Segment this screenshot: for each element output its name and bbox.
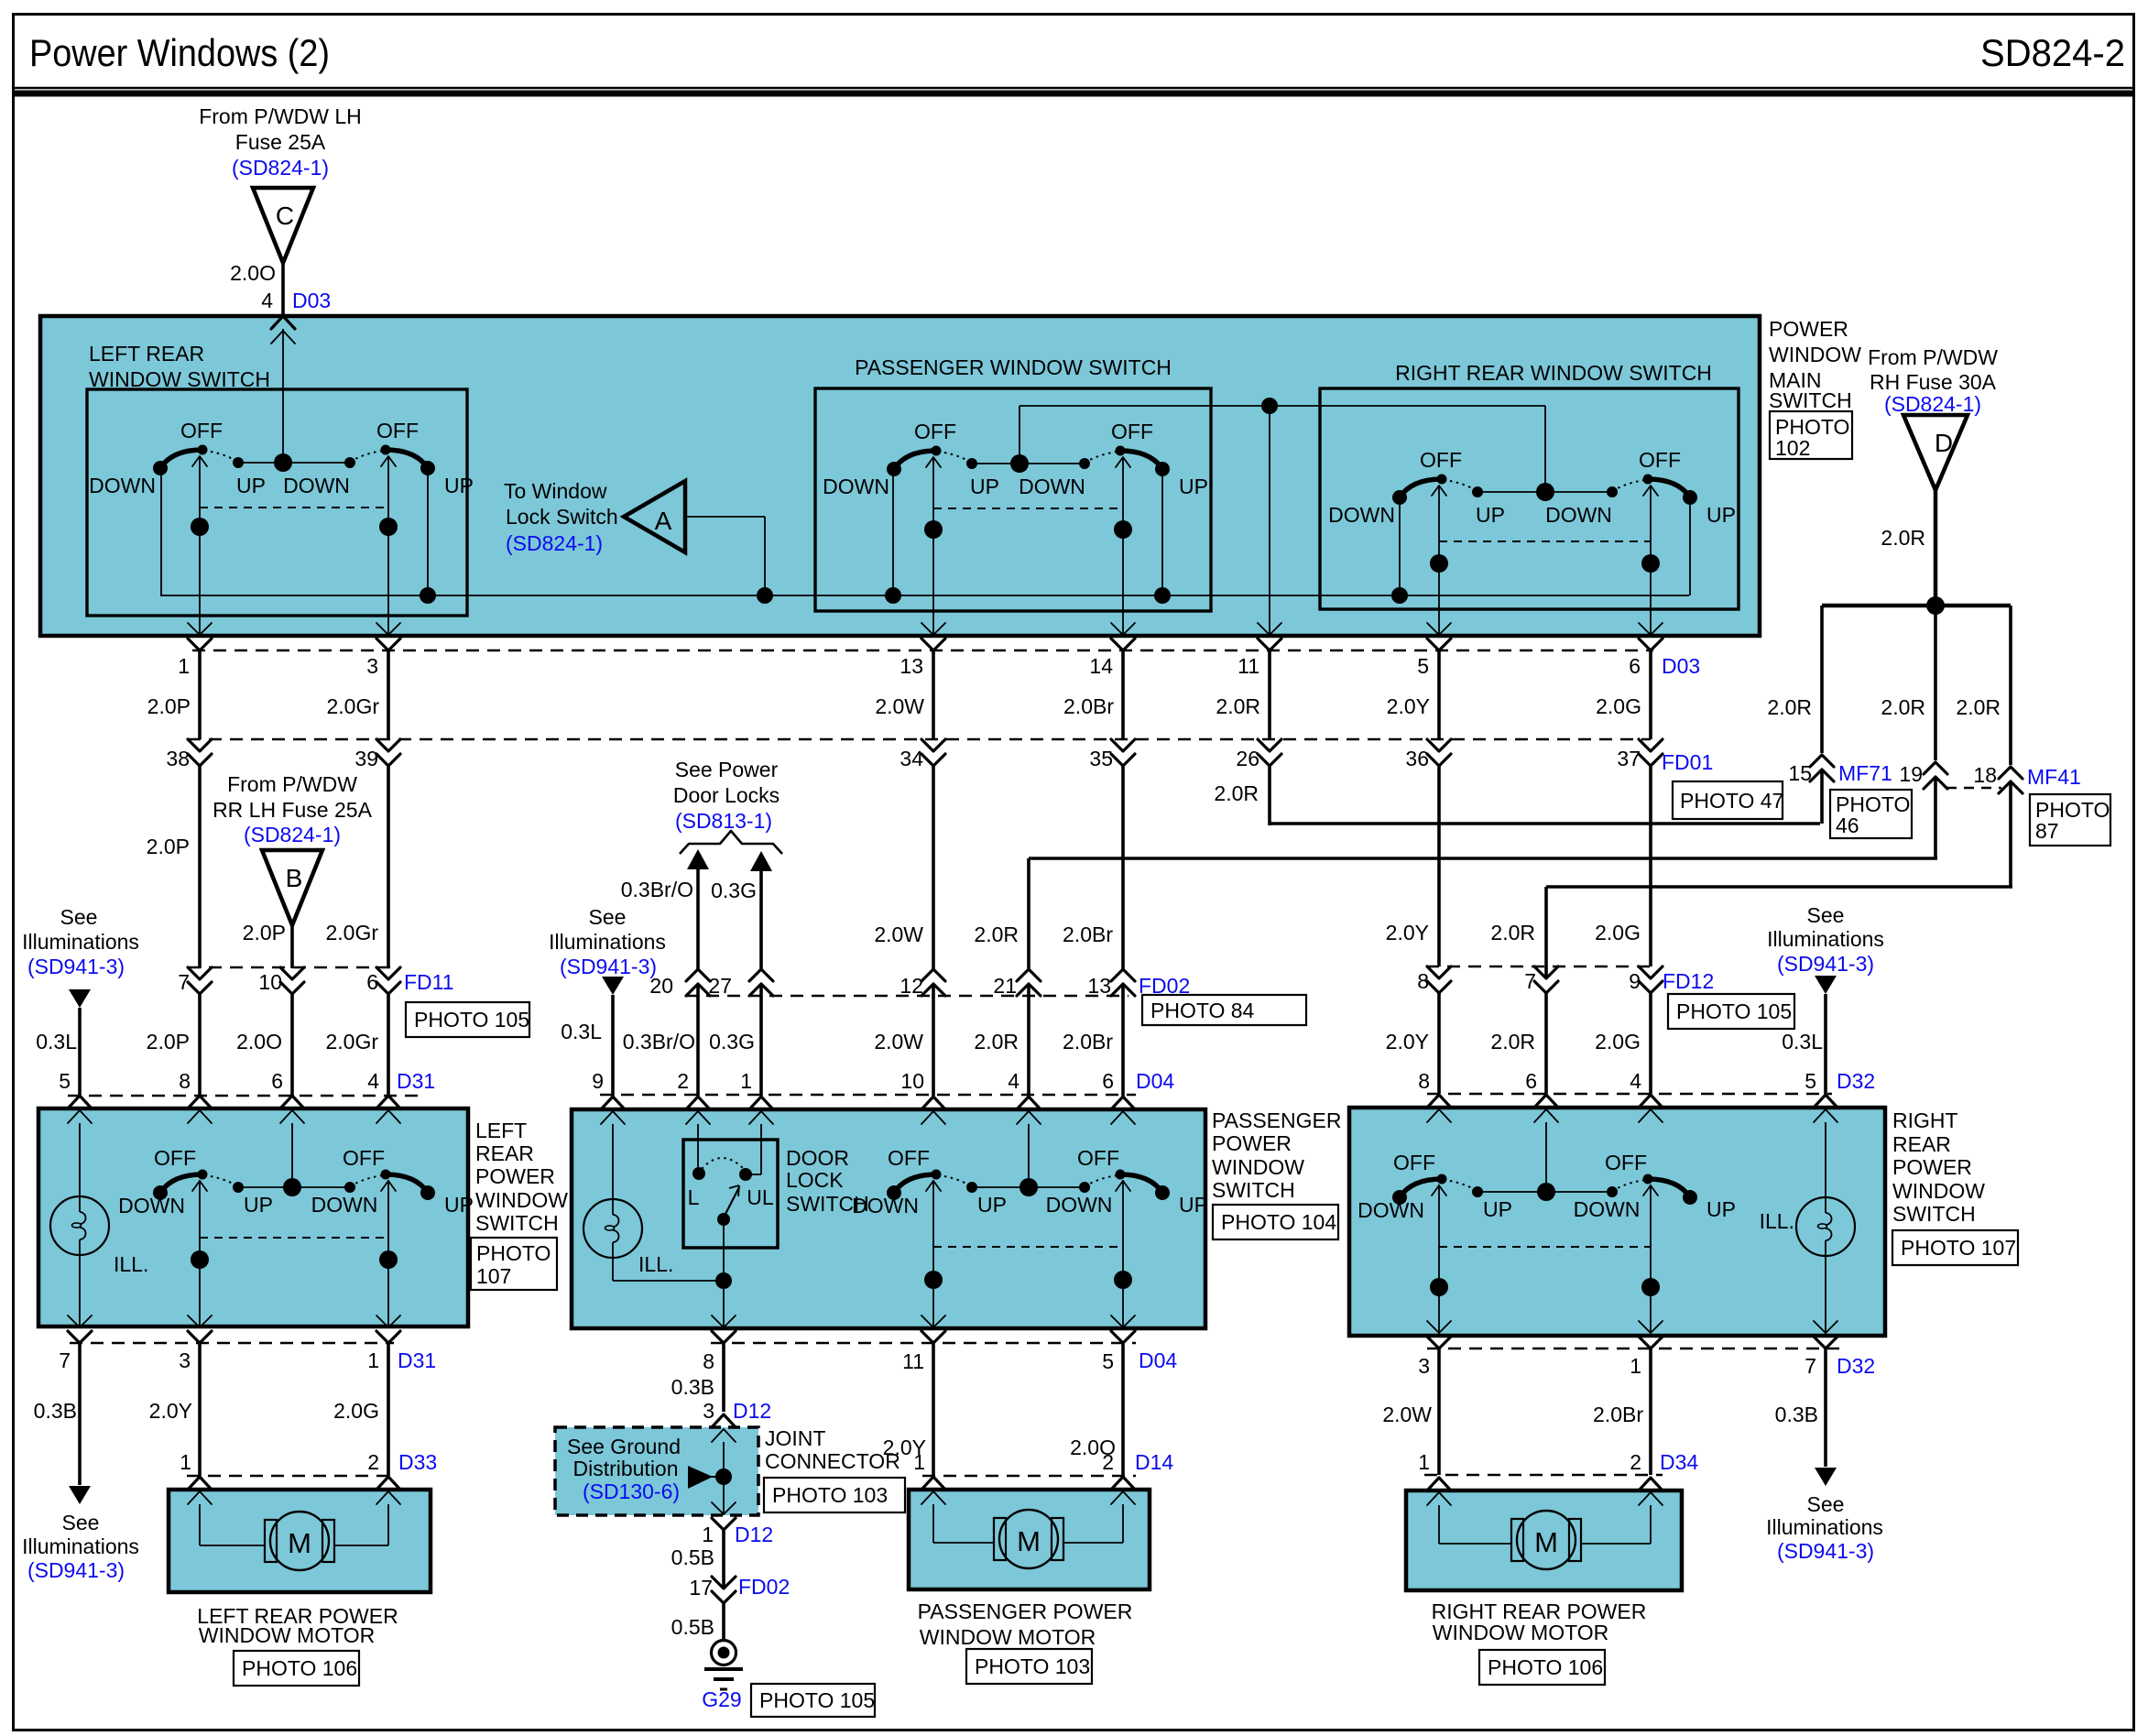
svg-text:RR LH Fuse 25A: RR LH Fuse 25A — [213, 798, 373, 822]
svg-text:1: 1 — [180, 1450, 191, 1474]
photo box PHOTO 46 — [1830, 790, 1912, 838]
connector D31 bottom dashed line — [70, 1342, 394, 1345]
svg-text:1: 1 — [740, 1069, 752, 1093]
triangle connector D — [1903, 415, 1968, 490]
motor M left rear — [270, 1512, 329, 1570]
connector FD02 pin 13 chevron — [1111, 984, 1135, 996]
svg-text:See: See — [589, 905, 627, 929]
svg-text:POWER: POWER — [475, 1164, 555, 1188]
svg-text:8: 8 — [1418, 1069, 1430, 1093]
svg-text:Illuminations: Illuminations — [22, 1534, 139, 1558]
svg-text:ILL.: ILL. — [114, 1252, 148, 1276]
svg-text:2.0W: 2.0W — [874, 1030, 923, 1054]
svg-text:6: 6 — [271, 1069, 283, 1093]
connector D31 entry chevron col 87 — [68, 1096, 92, 1108]
svg-text:D03: D03 — [1662, 654, 1700, 678]
svg-text:Power Windows (2): Power Windows (2) — [29, 31, 330, 74]
svg-text:REAR: REAR — [1892, 1132, 1951, 1156]
wire MF71 pin19 down — [1934, 777, 1937, 858]
svg-text:FD12: FD12 — [1663, 969, 1714, 993]
svg-text:PHOTO 105: PHOTO 105 — [1676, 999, 1792, 1023]
svg-text:SWITCH: SWITCH — [1769, 388, 1852, 412]
svg-text:18: 18 — [1973, 763, 1997, 787]
wire col 21 down to FD02 — [1027, 858, 1030, 969]
wire MF71 pin15 down — [1820, 770, 1824, 824]
junction dot center link pin11 — [1261, 398, 1278, 414]
svg-text:RIGHT: RIGHT — [1892, 1108, 1958, 1132]
connector FD01 pin 39 chevron — [376, 739, 400, 751]
svg-text:(SD941-3): (SD941-3) — [1777, 1539, 1874, 1563]
illumination arrow center — [602, 977, 624, 995]
svg-text:D32: D32 — [1837, 1069, 1875, 1093]
svg-text:(SD824-1): (SD824-1) — [1884, 392, 1981, 416]
svg-text:5: 5 — [59, 1069, 71, 1093]
wire boxL center up — [291, 1123, 293, 1187]
svg-text:PHOTO 105: PHOTO 105 — [414, 1008, 529, 1032]
svg-text:B: B — [286, 864, 303, 892]
svg-text:WINDOW: WINDOW — [475, 1188, 568, 1212]
svg-text:D31: D31 — [398, 1348, 436, 1372]
left rear power window motor box — [169, 1490, 431, 1592]
connector D14 entry chevron col1226 — [1111, 1477, 1135, 1490]
svg-text:37: 37 — [1617, 747, 1641, 770]
wire col 1802 D03 to FD01 — [1649, 650, 1652, 739]
wire right rear common 5 — [1438, 486, 1440, 636]
wire col1802 to D34 — [1649, 1347, 1652, 1475]
illumination arrow top-left — [69, 989, 91, 1008]
illumination lamp right rear — [1796, 1197, 1855, 1256]
connector D32 bottom pin 3 exit chevron — [1427, 1321, 1451, 1333]
svg-text:REAR: REAR — [475, 1141, 534, 1165]
svg-text:LOCK: LOCK — [786, 1168, 844, 1192]
connector D03 pin 1 exit chevron — [188, 623, 212, 635]
svg-text:RIGHT REAR WINDOW SWITCH: RIGHT REAR WINDOW SWITCH — [1395, 361, 1712, 385]
connector D03 pin 13 exit chevron — [921, 623, 945, 635]
svg-text:2.0W: 2.0W — [1382, 1403, 1432, 1426]
svg-text:FD11: FD11 — [404, 970, 454, 994]
svg-text:2.0R: 2.0R — [1216, 694, 1260, 718]
svg-text:0.3G: 0.3G — [711, 879, 757, 902]
wire bus down to MF71 pin15 — [1820, 606, 1824, 753]
svg-text:39: 39 — [354, 747, 378, 770]
wire col1571 FD12 to D32 — [1437, 993, 1441, 1094]
svg-text:4: 4 — [367, 1069, 379, 1093]
connector D32 entry chevron col 1993 — [1814, 1095, 1837, 1108]
svg-text:87: 87 — [2035, 819, 2059, 843]
svg-text:UP: UP — [1476, 503, 1505, 527]
connector FD11 row dashed line — [188, 966, 395, 969]
photo box PHOTO 87 — [2030, 794, 2110, 846]
svg-text:2.0G: 2.0G — [1596, 694, 1641, 718]
connector D33 entry chevron col218 — [188, 1477, 212, 1490]
connector D32 top dashed line — [1427, 1093, 1832, 1096]
wire D down to bus — [1934, 488, 1938, 606]
connector FD01 pin 37 chevron — [1639, 739, 1663, 751]
svg-text:0.3B: 0.3B — [1775, 1403, 1818, 1426]
wire col1226 FD01 to FD02 — [1121, 766, 1125, 969]
svg-text:8: 8 — [1417, 969, 1429, 993]
svg-text:DOWN: DOWN — [1574, 1197, 1641, 1221]
svg-text:0.3L: 0.3L — [36, 1030, 77, 1054]
wire C to D03 pin4 — [281, 263, 285, 316]
svg-text:LEFT: LEFT — [475, 1119, 527, 1142]
connector D04 entry chevron col 831 — [749, 1097, 773, 1109]
svg-text:PHOTO 105: PHOTO 105 — [759, 1688, 875, 1712]
connector FD02 pin 20 chevron — [686, 984, 710, 996]
svg-text:Distribution: Distribution — [572, 1457, 678, 1480]
connector FD01 pin 38 chevron — [188, 739, 212, 751]
wire lamp left bottom — [79, 1255, 81, 1327]
photo box PHOTO 103 joint — [764, 1478, 905, 1512]
wire bus down to MF41 pin18 — [2009, 606, 2012, 765]
passenger window switch — [894, 451, 936, 469]
wire illum bottom-right — [1824, 1347, 1827, 1467]
wire col1802 FD12 to D32 — [1649, 993, 1652, 1094]
junction dot right rear left arm — [1391, 587, 1408, 604]
connector D03 pin 6 exit chevron — [1639, 623, 1663, 635]
passenger power window switch box — [572, 1109, 1205, 1328]
svg-text:MF41: MF41 — [2027, 765, 2081, 789]
wire col424 FD01 to FD11 — [387, 766, 390, 968]
wire passenger common 13 — [932, 457, 934, 636]
svg-text:From P/WDW: From P/WDW — [1868, 345, 1998, 369]
svg-text:2.0Y: 2.0Y — [1386, 1030, 1429, 1054]
svg-text:(SD941-3): (SD941-3) — [1777, 952, 1874, 976]
svg-text:6: 6 — [366, 970, 378, 994]
connector D31 entry chevron col 218 — [188, 1096, 212, 1108]
svg-text:Illuminations: Illuminations — [1767, 927, 1884, 951]
svg-text:OFF: OFF — [1605, 1151, 1647, 1174]
connector FD12 pin 9 chevron — [1639, 966, 1663, 978]
connector MF71 pin15 chevron — [1810, 770, 1834, 781]
svg-text:5: 5 — [1102, 1349, 1114, 1373]
svg-text:2.0Br: 2.0Br — [1063, 923, 1113, 946]
connector FD02 pin17 chevron — [712, 1577, 736, 1589]
wire lamp left top — [79, 1123, 81, 1196]
wire col 26 corner — [1268, 766, 1271, 825]
svg-text:14: 14 — [1089, 654, 1113, 678]
wire D03 pin4 to left switch center — [282, 329, 284, 463]
connector MF41 dashed link — [1946, 787, 2001, 790]
svg-text:2.0Y: 2.0Y — [1386, 921, 1429, 944]
left rear window switch — [160, 450, 202, 468]
svg-text:5: 5 — [1417, 654, 1429, 678]
svg-text:2.0P: 2.0P — [147, 694, 191, 718]
svg-text:To Window: To Window — [504, 479, 607, 503]
illumination arrow top-right — [1815, 976, 1837, 994]
svg-text:See: See — [62, 1511, 100, 1534]
svg-text:A: A — [655, 507, 672, 535]
wire col790 to D12 — [722, 1341, 725, 1412]
svg-text:D: D — [1935, 429, 1953, 457]
svg-text:1: 1 — [367, 1348, 379, 1372]
svg-text:UP: UP — [1179, 1193, 1208, 1217]
svg-text:10: 10 — [258, 970, 282, 994]
connector D04 entry chevron col 1226 — [1111, 1097, 1135, 1109]
junction dot passenger right arm — [1154, 587, 1171, 604]
wire FD02 pin17 to ground — [722, 1603, 725, 1641]
svg-text:(SD824-1): (SD824-1) — [506, 531, 603, 555]
svg-text:(SD824-1): (SD824-1) — [244, 823, 341, 846]
wire door lock common down — [723, 1219, 725, 1327]
svg-text:Fuse 25A: Fuse 25A — [235, 130, 326, 154]
wire motorR right lead — [1650, 1505, 1652, 1544]
svg-text:2.0R: 2.0R — [974, 1030, 1019, 1054]
svg-text:2.0Br: 2.0Br — [1063, 694, 1114, 718]
connector D34 dashed line — [1424, 1474, 1663, 1477]
door lock arrow up left — [687, 849, 709, 869]
connector MF41 pin18 chevron — [1999, 781, 2023, 793]
connector D31 entry chevron col 424 — [376, 1096, 400, 1108]
photo box PHOTO 105 ground — [751, 1684, 875, 1717]
wire pin19 route to col 21 — [1029, 857, 1937, 860]
wire motorL left lead — [199, 1504, 201, 1545]
svg-text:G29: G29 — [702, 1687, 741, 1711]
connector FD01 pin 36 chevron — [1427, 739, 1451, 751]
svg-text:JOINT: JOINT — [765, 1426, 825, 1450]
connector D34 entry chevron col1802 — [1639, 1478, 1663, 1490]
wire boxC common 1019 — [932, 1180, 934, 1327]
svg-text:OFF: OFF — [914, 420, 956, 443]
connector D32 entry chevron col 1571 — [1427, 1095, 1451, 1108]
svg-text:2.0R: 2.0R — [1881, 695, 1925, 719]
photo box PHOTO 102 — [1770, 411, 1852, 459]
svg-text:21: 21 — [993, 974, 1017, 998]
svg-text:OFF: OFF — [1420, 448, 1462, 472]
connector D33 dashed line — [187, 1475, 394, 1478]
svg-text:2.0R: 2.0R — [1767, 695, 1812, 719]
svg-text:OFF: OFF — [376, 419, 419, 442]
connector D03 pin 3 exit chevron — [376, 623, 400, 635]
svg-text:UP: UP — [970, 475, 999, 498]
connector FD12 pin 8 chevron — [1427, 966, 1451, 978]
connector FD01 row dashed line — [188, 738, 1651, 741]
wire bus down to MF71 pin19 — [1934, 606, 1937, 760]
joint connector junction dot — [715, 1469, 732, 1485]
svg-text:2.0G: 2.0G — [1595, 921, 1641, 944]
connector D31 entry chevron col 319 — [280, 1096, 304, 1108]
svg-text:2.0O: 2.0O — [236, 1030, 282, 1054]
svg-text:D12: D12 — [733, 1399, 771, 1423]
svg-text:WINDOW: WINDOW — [1212, 1155, 1304, 1179]
triangle connector A — [624, 481, 685, 552]
svg-text:M: M — [288, 1527, 311, 1559]
svg-text:WINDOW SWITCH: WINDOW SWITCH — [89, 367, 270, 391]
svg-text:PASSENGER: PASSENGER — [1212, 1108, 1341, 1132]
connector D32 entry chevron col 1802 — [1639, 1095, 1663, 1108]
door lock arrow up right — [750, 851, 772, 871]
wire inside joint connector — [723, 1442, 725, 1515]
photo box PHOTO 105 right — [1668, 994, 1794, 1029]
svg-text:PASSENGER POWER: PASSENGER POWER — [918, 1600, 1133, 1623]
svg-text:17: 17 — [689, 1576, 713, 1600]
svg-text:DOWN: DOWN — [311, 1193, 378, 1217]
door lock UL contact dot — [739, 1168, 752, 1181]
svg-text:2.0W: 2.0W — [875, 694, 924, 718]
wire col1571 FD01 to FD12 — [1437, 766, 1441, 966]
svg-text:11: 11 — [902, 1349, 924, 1373]
svg-text:7: 7 — [1524, 969, 1536, 993]
connector D04 bottom pin 8 exit chevron — [712, 1316, 736, 1327]
svg-text:D04: D04 — [1139, 1348, 1177, 1372]
svg-text:3: 3 — [703, 1399, 714, 1423]
left rear window switch inner box — [87, 389, 467, 616]
wire pin18 route to col FD12-7 — [1546, 885, 2012, 889]
wire illum to D31 pin5 — [78, 1008, 82, 1096]
svg-text:UP: UP — [244, 1193, 273, 1217]
motor M passenger — [999, 1510, 1058, 1568]
svg-text:2.0G: 2.0G — [1595, 1030, 1641, 1054]
svg-text:0.5B: 0.5B — [671, 1545, 714, 1569]
wire left arm to lock bus — [160, 464, 162, 596]
svg-text:20: 20 — [649, 974, 673, 998]
wire col1019 FD02 to D04 — [932, 984, 935, 1096]
illumination arrow bottom-left — [69, 1486, 91, 1504]
connector D31 bottom pin 7 exit chevron — [68, 1316, 92, 1327]
brace over door lock wires — [680, 831, 782, 854]
connector D03 pin 11 exit chevron — [1258, 623, 1281, 635]
photo box PHOTO 106 right — [1479, 1650, 1605, 1685]
svg-text:2: 2 — [367, 1450, 379, 1474]
right rear window switch inner box — [1320, 388, 1739, 609]
svg-text:UP: UP — [1706, 503, 1736, 527]
svg-text:(SD130-6): (SD130-6) — [583, 1479, 680, 1503]
svg-text:19: 19 — [1899, 762, 1923, 786]
svg-text:PHOTO 103: PHOTO 103 — [772, 1483, 888, 1507]
connector FD01 pin 35 chevron — [1111, 739, 1135, 751]
motor M right rear — [1517, 1511, 1576, 1569]
svg-text:1: 1 — [913, 1450, 925, 1474]
wire MF41 pin18 down — [2009, 781, 2012, 887]
junction dot D bus — [1926, 596, 1945, 615]
wire col 1226 D03 to FD01 — [1121, 650, 1125, 739]
svg-text:2.0R: 2.0R — [1490, 1030, 1535, 1054]
svg-text:D14: D14 — [1135, 1450, 1173, 1474]
connector FD02 pin 27 chevron — [749, 984, 773, 996]
connector D03 pin 14 exit chevron — [1111, 623, 1135, 635]
svg-text:D31: D31 — [397, 1069, 435, 1093]
wire col1226 to D14 — [1121, 1341, 1125, 1476]
svg-text:M: M — [1534, 1526, 1558, 1558]
svg-text:SWITCH: SWITCH — [1892, 1202, 1976, 1226]
svg-text:From P/WDW LH: From P/WDW LH — [199, 104, 362, 128]
svg-text:1: 1 — [178, 654, 190, 678]
passenger power window motor box — [909, 1490, 1150, 1589]
triangle connector B — [262, 850, 322, 925]
connector D04 top dashed line — [600, 1094, 1136, 1097]
junction dot A bus — [757, 587, 773, 604]
svg-text:DOWN: DOWN — [283, 474, 350, 497]
connector D12 entry chevron — [712, 1414, 736, 1427]
svg-text:11: 11 — [1238, 654, 1259, 678]
svg-text:Illuminations: Illuminations — [549, 930, 666, 954]
svg-text:OFF: OFF — [343, 1146, 385, 1170]
svg-text:12: 12 — [900, 974, 923, 998]
wire right rear center link down — [1544, 406, 1546, 492]
svg-text:OFF: OFF — [154, 1146, 196, 1170]
svg-text:Lock Switch: Lock Switch — [506, 505, 618, 529]
wire col424 to D33 — [387, 1343, 390, 1476]
svg-text:13: 13 — [900, 654, 923, 678]
connector D04 entry chevron col 1123 — [1017, 1097, 1041, 1109]
svg-text:7: 7 — [178, 970, 190, 994]
svg-text:38: 38 — [166, 747, 190, 770]
wire col218 FD11 to D31 — [198, 994, 202, 1096]
svg-text:2.0R: 2.0R — [1881, 526, 1925, 550]
ground distribution arrow — [688, 1466, 713, 1489]
svg-text:(SD824-1): (SD824-1) — [232, 156, 329, 180]
wire B to FD11 — [290, 925, 294, 968]
wire col762 to L contact — [697, 1124, 699, 1173]
wire A to lock bus — [685, 516, 765, 518]
wire col831 to UL contact — [760, 1124, 762, 1174]
svg-text:2.0R: 2.0R — [1956, 695, 2001, 719]
svg-text:LEFT REAR: LEFT REAR — [89, 342, 204, 366]
svg-text:2.0R: 2.0R — [1214, 781, 1259, 805]
svg-text:D03: D03 — [292, 289, 331, 312]
passenger window switch inner box — [815, 388, 1211, 611]
title bar separator thick — [13, 91, 2134, 97]
wire door lock col831 upper — [759, 871, 763, 969]
svg-text:8: 8 — [703, 1349, 714, 1373]
wire boxC common 1226 — [1122, 1180, 1124, 1327]
wire left switch common 1 — [199, 456, 201, 636]
svg-text:9: 9 — [1629, 969, 1641, 993]
wire boxR common 1802 — [1650, 1185, 1652, 1336]
svg-text:OFF: OFF — [1111, 420, 1153, 443]
door lock dotted arc — [702, 1158, 744, 1169]
svg-text:POWER: POWER — [1212, 1131, 1292, 1155]
connector D31 bottom pin 3 exit chevron — [188, 1316, 212, 1327]
wire passenger common 14 — [1122, 457, 1124, 636]
connector D32 bottom pin 7 exit chevron — [1814, 1321, 1837, 1333]
connector D31 top dashed line — [68, 1095, 418, 1097]
svg-text:C: C — [276, 202, 294, 230]
wire boxC center up — [1028, 1124, 1030, 1187]
svg-text:See: See — [1807, 903, 1845, 927]
wire motorP left lead — [932, 1504, 934, 1543]
svg-text:FD02: FD02 — [738, 1575, 790, 1599]
svg-text:PHOTO 107: PHOTO 107 — [1901, 1236, 2016, 1260]
wire col1571 to D34 — [1437, 1347, 1441, 1475]
wire boxR center up — [1545, 1122, 1547, 1192]
svg-text:Door Locks: Door Locks — [673, 783, 780, 807]
connector D04 bottom dashed line — [711, 1342, 1136, 1345]
junction dot left switch arm bus — [420, 587, 436, 604]
door lock arm — [724, 1187, 739, 1217]
svg-text:34: 34 — [900, 747, 923, 770]
connector D12 bottom exit chevron — [712, 1502, 736, 1514]
svg-text:OFF: OFF — [180, 419, 223, 442]
connector D03 row dashed line — [192, 650, 1653, 652]
svg-text:UP: UP — [444, 1193, 474, 1217]
illumination lamp left rear — [50, 1196, 109, 1255]
svg-text:WINDOW MOTOR: WINDOW MOTOR — [199, 1623, 376, 1647]
passenger lower window switch — [894, 1174, 936, 1193]
wire boxL common 424 — [387, 1180, 389, 1327]
svg-text:PHOTO 106: PHOTO 106 — [1488, 1655, 1603, 1679]
svg-text:Illuminations: Illuminations — [1766, 1515, 1883, 1539]
svg-text:ILL.: ILL. — [638, 1252, 673, 1276]
wire pin11 down — [1269, 406, 1270, 636]
svg-text:D34: D34 — [1660, 1450, 1698, 1474]
svg-text:8: 8 — [179, 1069, 191, 1093]
wire col1019 to D14 — [932, 1341, 935, 1476]
svg-text:FD01: FD01 — [1662, 750, 1713, 774]
svg-text:D12: D12 — [735, 1523, 773, 1546]
svg-text:DOWN: DOWN — [852, 1194, 919, 1217]
svg-text:SWITCH: SWITCH — [1212, 1178, 1295, 1202]
